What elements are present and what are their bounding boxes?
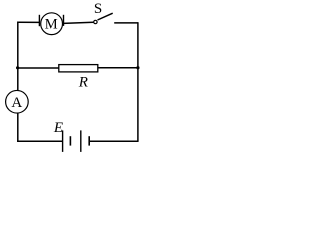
- svg-text:E: E: [53, 120, 63, 136]
- resistor R box: [59, 65, 98, 72]
- svg-text:R: R: [78, 74, 88, 90]
- wire left vertical lower (ammeter to bottom corner): [17, 113, 19, 142]
- ammeter A1 circle: [6, 90, 29, 113]
- motor M1 left brush bar: [38, 15, 40, 26]
- wire top-left horizontal (corner to motor): [18, 21, 39, 23]
- svg-text:A: A: [11, 95, 22, 111]
- battery E cell2 long plate: [80, 130, 82, 152]
- switch S lever (open): [98, 13, 113, 20]
- wire right vertical: [137, 22, 139, 142]
- svg-text:M: M: [45, 16, 58, 32]
- wire left vertical upper (corner to ammeter): [17, 22, 19, 91]
- wire motor to switch pivot: [64, 22, 94, 23]
- switch S pivot contact circle: [94, 20, 97, 23]
- node junction left (R branch joins left wire): [16, 66, 19, 69]
- battery E cell1 short plate: [69, 136, 71, 145]
- motor M1 right brush bar: [63, 15, 65, 26]
- wire R branch left segment: [18, 67, 59, 69]
- wire bottom left segment: [17, 140, 63, 142]
- wire R branch right segment: [98, 67, 138, 69]
- node junction right (R branch joins right wire): [136, 66, 139, 69]
- wire bottom right segment: [89, 140, 138, 142]
- battery E cell2 short plate: [88, 136, 90, 145]
- svg-text:S: S: [94, 1, 102, 17]
- battery E cell1 long plate: [62, 130, 64, 152]
- wire switch to top-right corner: [114, 22, 138, 24]
- motor M1 circle: [41, 13, 63, 35]
